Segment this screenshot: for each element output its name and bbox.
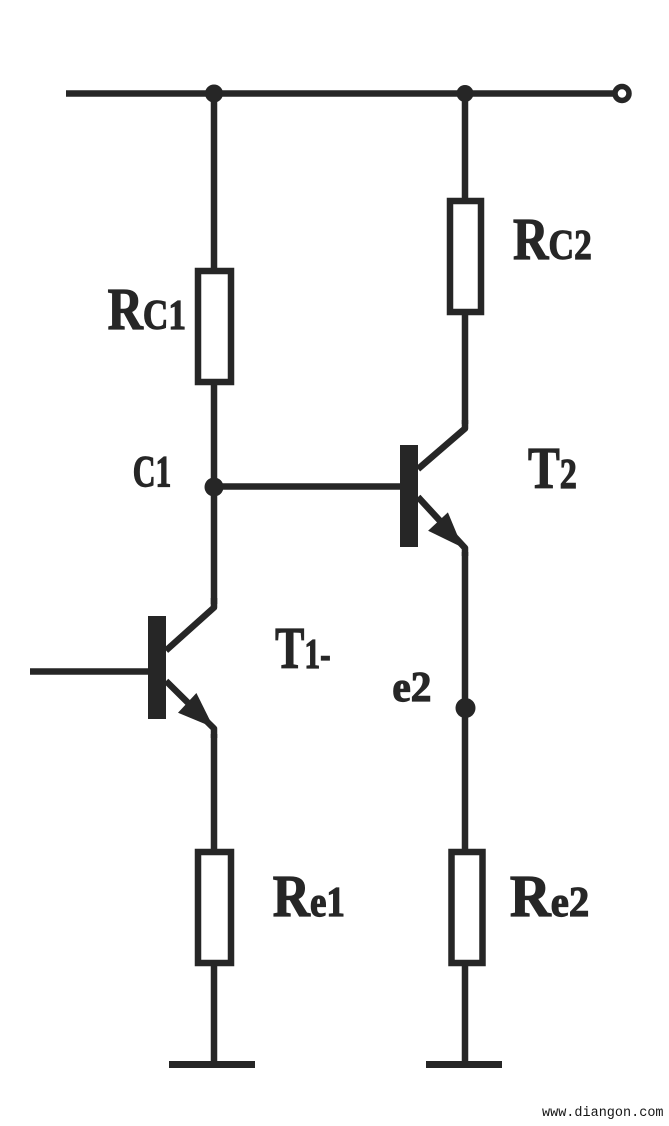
svg-text:T2: T2 <box>528 435 577 501</box>
wire: top supply rail <box>66 90 613 97</box>
svg-text:RC2: RC2 <box>513 207 592 272</box>
label C1 (node) <box>133 448 172 496</box>
resistor Re1 <box>198 852 231 963</box>
label RC2 <box>513 207 592 272</box>
wire: RC1 to node C1 <box>211 382 218 487</box>
ground: left ground bar <box>169 1061 255 1068</box>
node e2 junction dot <box>456 698 476 718</box>
svg-text:Re1: Re1 <box>273 864 345 929</box>
svg-text:T1-: T1- <box>275 617 331 682</box>
node C1 junction dot <box>205 478 224 497</box>
transistor T1 <box>148 598 214 738</box>
junction dot: rail / RC2 branch <box>457 85 474 102</box>
resistor RC1 <box>198 271 231 382</box>
ground: right ground bar <box>426 1061 502 1068</box>
resistor RC2 <box>450 201 481 312</box>
label T2 <box>528 435 577 501</box>
wire: rail down to RC2 <box>462 94 469 202</box>
svg-text:C1: C1 <box>133 448 172 496</box>
wire: T1 emitter down to Re1 <box>211 734 218 852</box>
wire: input to T1 base <box>30 668 148 675</box>
label e2 (node) <box>392 665 431 711</box>
wire: rail down to RC1 <box>211 94 218 272</box>
label T1- <box>275 617 331 682</box>
svg-text:Re2: Re2 <box>510 863 589 929</box>
wire: node C1 to T2 base <box>214 483 400 490</box>
transistor T2 <box>400 420 465 556</box>
wire: Re2 to right ground <box>462 963 469 1065</box>
resistor Re2 <box>452 852 483 963</box>
svg-text:e2: e2 <box>392 665 431 711</box>
label RC1 <box>108 277 186 342</box>
junction dot: rail / RC1 branch <box>205 85 223 103</box>
wire: RC2 to T2 collector <box>462 312 469 424</box>
wire: Re1 to left ground <box>211 963 218 1065</box>
svg-text:RC1: RC1 <box>108 277 186 342</box>
wire: T2 emitter down to node e2 <box>462 552 469 708</box>
label Re2 <box>510 863 589 929</box>
terminal: supply output circle <box>615 87 629 101</box>
svg-text:www.diangon.com: www.diangon.com <box>542 1106 664 1121</box>
wire: node e2 down to Re2 <box>462 708 469 852</box>
label Re1 <box>273 864 345 929</box>
wire: node C1 down to T1 collector <box>211 487 218 604</box>
